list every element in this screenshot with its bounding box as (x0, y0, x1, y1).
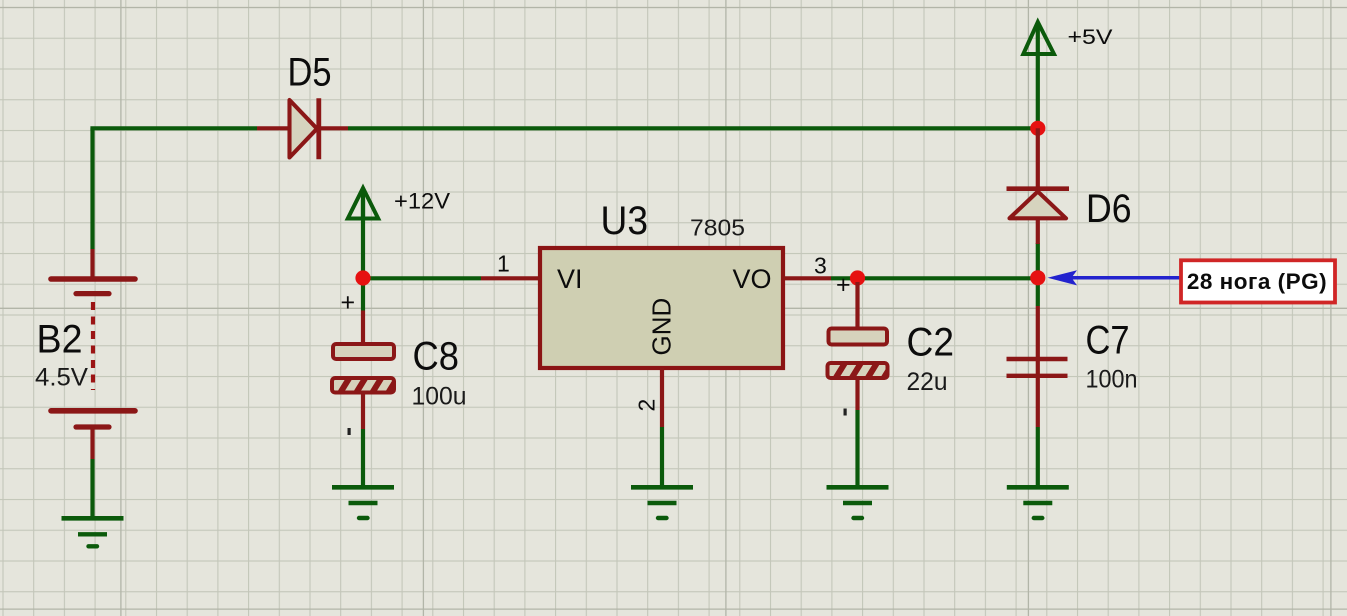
value 100u (412, 383, 467, 411)
svg-text:28 нога (PG): 28 нога (PG) (1187, 269, 1327, 294)
svg-text:100n: 100n (1086, 366, 1138, 394)
ground (battery) (62, 518, 124, 546)
svg-text:C2: C2 (907, 321, 955, 365)
label D6 (1086, 187, 1132, 231)
pin number 1 (497, 251, 510, 277)
svg-text:3: 3 (814, 253, 827, 279)
label +5V (1068, 26, 1113, 49)
wire top horizontal left (battery to D5) (90, 126, 257, 130)
svg-text:VO: VO (733, 264, 772, 294)
capacitor C2 (828, 282, 897, 410)
svg-text:C8: C8 (413, 335, 460, 379)
label C7 (1086, 319, 1130, 363)
svg-text:1: 1 (497, 251, 510, 277)
battery B2 (51, 249, 135, 519)
capacitor C7 (1007, 306, 1068, 427)
pin number 2 (rotated) (634, 399, 660, 412)
svg-text:D6: D6 (1086, 187, 1132, 231)
ground (C7) (1007, 487, 1069, 518)
label +12V (394, 189, 450, 214)
wire +5V rail shaft (1036, 25, 1040, 128)
wire C8 bottom to ground (361, 429, 365, 488)
svg-text:GND: GND (647, 298, 677, 356)
node junction (VO / C2) (850, 270, 865, 285)
svg-text:VI: VI (557, 264, 583, 294)
svg-text:B2: B2 (37, 318, 83, 362)
capacitor C8 (332, 311, 401, 430)
svg-text:7805: 7805 (690, 215, 745, 241)
wire node down to C7 (1036, 278, 1040, 306)
pin name VO (733, 264, 772, 294)
C2 minus mark (844, 409, 847, 416)
value 4.5V (35, 364, 88, 392)
svg-text:100u: 100u (412, 383, 467, 411)
annotation blue arrow (1048, 270, 1182, 285)
wire battery vertical (90, 128, 94, 249)
svg-text:+5V: +5V (1068, 26, 1113, 49)
node junction (+5V rail / D5 / D6) (1030, 121, 1045, 136)
label U3 (601, 199, 649, 243)
svg-text:+: + (836, 271, 851, 299)
svg-text:22u: 22u (907, 368, 948, 396)
svg-text:+: + (341, 289, 356, 317)
svg-text:D5: D5 (288, 51, 332, 95)
C2 plus mark (836, 271, 851, 299)
wire node down to C8 (361, 278, 365, 311)
wire U3 VO to node C2 to node D6 (831, 276, 1038, 280)
label C8 (413, 335, 460, 379)
power +5V (1023, 22, 1054, 54)
IC U3 7805 regulator (481, 248, 831, 427)
label B2 (37, 318, 83, 362)
svg-text:+12V: +12V (394, 189, 450, 214)
wire +12V rail to node (361, 200, 365, 278)
wire C7 bottom to ground (1036, 427, 1040, 488)
diode D5 (257, 98, 348, 159)
wire D6 to node (1036, 243, 1040, 278)
wire node to U3 VI (363, 276, 481, 280)
pin name VI (557, 264, 583, 294)
pin number 3 (814, 253, 827, 279)
value 7805 (690, 215, 745, 241)
diode D6 (1007, 128, 1070, 244)
svg-text:4.5V: 4.5V (35, 364, 88, 392)
label D5 (288, 51, 332, 95)
pin name GND (rotated) (647, 298, 677, 356)
svg-text:C7: C7 (1086, 319, 1130, 363)
value 22u (907, 368, 948, 396)
C8 minus mark (348, 428, 351, 435)
wire U3 GND pin to ground (660, 427, 664, 488)
wire C2 bottom to ground (855, 410, 859, 488)
label C2 (907, 321, 955, 365)
node junction (D6 / VO rail / C7) (1030, 270, 1045, 285)
ground (C8) (332, 487, 394, 518)
svg-text:2: 2 (634, 399, 660, 412)
ground (U3 pin 2) (631, 487, 693, 518)
annotation label box: 28 нога (PG) (1181, 260, 1335, 302)
value 100n (1086, 366, 1138, 394)
ground (C2) (827, 487, 889, 518)
wire top horizontal right (D5 to +5V node) (348, 126, 1038, 130)
C8 plus mark (341, 289, 356, 317)
power +12V (348, 188, 378, 219)
svg-text:U3: U3 (601, 199, 649, 243)
node junction (+12V / VI / C8) (355, 270, 370, 285)
